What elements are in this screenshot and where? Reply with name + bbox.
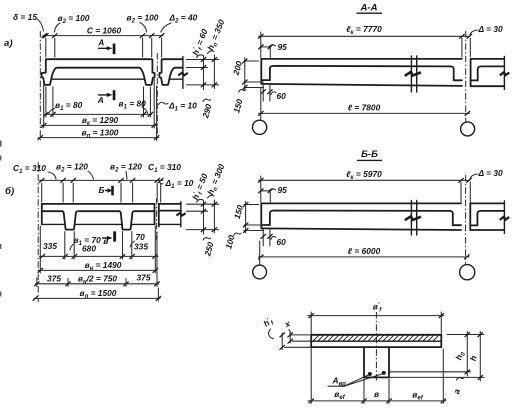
bp=1300 dimension [38,137,159,139]
top ext line right [447,334,484,336]
lower dimension b1 line [45,113,152,115]
svg-text:б): б) [5,186,14,197]
svg-text:ℓ = 7800: ℓ = 7800 [348,102,381,112]
svg-text:Б: Б [99,185,105,195]
panel b) top surface [42,203,155,205]
support circles [253,120,267,134]
flange soffit segments [42,210,63,212]
break line [180,202,182,227]
panel a) outline [42,59,155,85]
beam outline [261,58,462,60]
290 label [203,99,211,101]
bottom ext line [389,376,484,378]
label D1=10 with squiggle leader [159,102,169,104]
svg-text:60: 60 [277,91,287,101]
extension lines below ribs [64,232,66,260]
beam outline [261,202,461,204]
web [363,347,365,377]
left height dims 150/100 [244,204,259,206]
95 dim [261,190,271,192]
extension lines below ribs [45,87,47,117]
svg-text:70: 70 [136,232,146,242]
bn=1490 [39,269,158,271]
svg-text:а): а) [4,38,13,49]
hf' mini dim line [281,333,283,350]
svg-text:60: 60 [277,237,287,247]
top dimension line [40,179,164,181]
svg-text:А: А [97,38,104,48]
joint axis dash-dot [465,31,467,123]
joint axis [465,175,467,265]
95 dim at left end [261,46,271,48]
adjacent beam piece [470,202,504,204]
extension lines above panel [45,38,47,57]
left joint axis (dash-dot) [39,31,41,141]
hn=350 dim line [213,55,215,89]
hf'=60 dim line [203,56,205,90]
left joint axis [37,162,39,302]
svg-text:ℓ = 6000: ℓ = 6000 [348,246,381,256]
h0 dim [466,332,468,377]
hatch bottom line [311,340,441,342]
250 label [203,238,211,240]
svg-text:Δ = 30: Δ = 30 [478,24,504,34]
bk=1290 dimension [41,124,157,126]
flange outline [311,335,441,347]
scan edge artifacts [0,141,2,297]
middle break lines [410,201,412,236]
left rib [62,211,77,229]
right-side vertical dims of b) [187,203,219,205]
h dim [479,332,481,382]
svg-text:Δ = 30: Δ = 30 [478,168,504,178]
svg-text:375: 375 [137,273,151,283]
60 dim at left bottom [262,85,264,101]
extension verticals [39,226,41,273]
x mini dim line [289,332,291,344]
svg-text:δ = 15: δ = 15 [13,12,37,22]
svg-text:А-А: А-А [359,3,377,14]
right-side vertical dims of a) [187,59,219,61]
svg-text:375: 375 [47,274,61,284]
end-rib projection line [42,223,65,225]
svg-text:в: в [374,389,379,399]
bp=1500 [34,297,160,299]
extension verticals outer [43,79,45,128]
svg-text:С = 1060: С = 1060 [87,26,122,36]
adjacent panel piece (right of joint) [159,59,182,85]
adjacent beam piece [471,58,504,60]
joint axis (dash-dot) right of panel a [156,53,158,140]
bottom dims of b) : row 1 [40,255,159,257]
leader hooks [269,329,274,339]
svg-text:680: 680 [82,244,96,254]
bottom dim line [308,400,446,402]
svg-text:Б-Б: Б-Б [361,149,378,160]
top dim line [308,315,444,317]
a dim squiggle + label [457,378,465,380]
svg-text:95: 95 [278,42,288,52]
svg-text:335: 335 [43,241,57,251]
break line of adjacent piece [182,57,184,89]
joint axis right of panel b [156,198,158,240]
375 row [36,283,159,285]
svg-text:95: 95 [278,185,288,195]
svg-text:335: 335 [134,242,148,252]
60 dim [262,229,264,246]
reinforcement dots [368,372,372,376]
panel b) left edge [41,204,43,225]
extension lines left of flange [291,334,312,336]
top dimension line C/b2 [43,35,163,37]
projection line of end rib [52,78,145,80]
extension lines above panel b [41,183,43,202]
panel b) right edge [154,204,156,225]
svg-text:А: А [97,95,104,105]
compression zone hatch [313,335,439,341]
reinforcement level line [389,371,471,373]
middle break lines [410,56,412,92]
adjacent panel piece right [159,203,181,205]
right rib [119,211,133,229]
label D1=10 [159,182,163,184]
centerline dash-dot [375,312,377,381]
support circles [253,265,267,279]
left height dims 200/150 [244,60,259,62]
